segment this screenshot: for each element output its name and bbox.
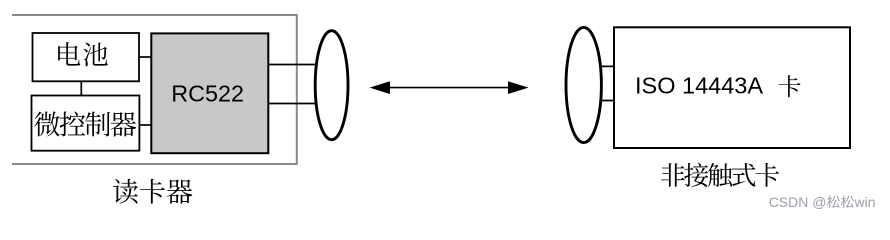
reader antenna coil (ellipse)	[315, 31, 348, 140]
wire microcontroller to RC522	[138, 124, 152, 126]
caption 非接触式卡	[661, 163, 779, 187]
microcontroller label 微控制器	[34, 112, 136, 137]
card antenna coil (ellipse)	[566, 27, 601, 142]
wire battery to microcontroller	[80, 81, 82, 96]
wire card coil top	[598, 65, 615, 67]
microcontroller box	[32, 96, 140, 151]
svg-text:RC522: RC522	[171, 81, 244, 107]
battery label 电池	[58, 42, 108, 66]
wire RC522 to coil bottom	[268, 103, 317, 105]
watermark 松松	[827, 195, 854, 208]
svg-text:CSDN @: CSDN @	[769, 194, 827, 210]
ISO 14443A card box	[614, 27, 850, 148]
RC522 chip box	[151, 33, 268, 153]
wire RC522 to coil top	[268, 64, 318, 66]
reader enclosure box	[12, 15, 297, 164]
svg-text:ISO 14443A: ISO 14443A	[635, 72, 763, 98]
double-headed arrow	[370, 81, 529, 94]
card label 卡	[778, 75, 800, 97]
wire battery to RC522	[138, 56, 152, 58]
battery box	[33, 33, 140, 81]
caption 读卡器	[113, 179, 192, 204]
wire card coil bottom	[597, 100, 615, 102]
svg-text:win: win	[854, 194, 876, 210]
